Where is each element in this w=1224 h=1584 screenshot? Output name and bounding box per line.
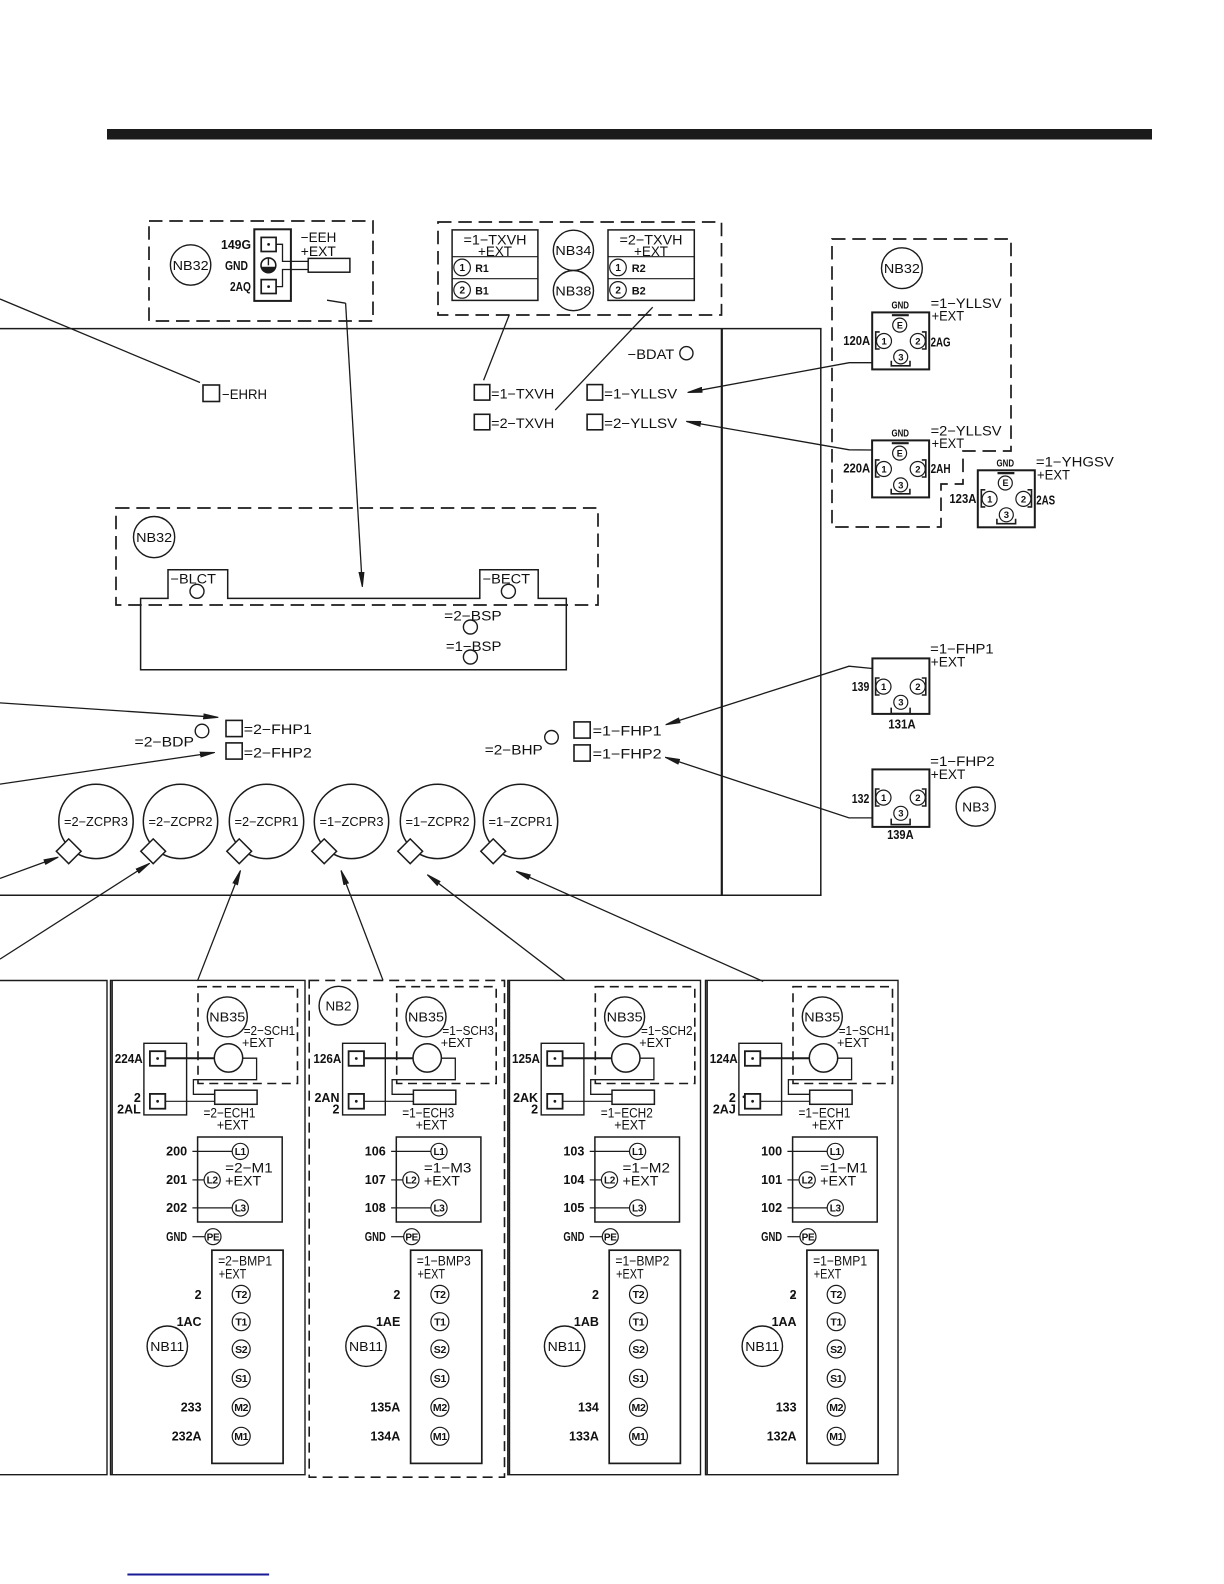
protector terminal S1 [827, 1369, 845, 1387]
arrow from left to =2-FHP2 flag [0, 753, 214, 785]
svg-text:+EXT: +EXT [932, 436, 965, 451]
svg-text:−EEH: −EEH [301, 230, 337, 245]
stray dot after wire label 2 (column 4) [793, 1295, 795, 1297]
svg-text:+EXT: +EXT [424, 1172, 460, 1188]
node NB11 [147, 1326, 187, 1366]
svg-text:T2: T2 [235, 1289, 247, 1301]
motor protector =1-BMP2 box [609, 1250, 680, 1463]
leader 220A connector to =2-YLLSV [687, 422, 872, 451]
motor terminal L2 [204, 1172, 220, 1188]
svg-text:2AQ: 2AQ [230, 280, 251, 294]
motor terminal L1 [232, 1143, 248, 1159]
protector terminal S1 [431, 1369, 449, 1387]
svg-text:M1: M1 [829, 1431, 843, 1443]
connector 120A keying brackets [876, 332, 880, 349]
dashed box NB32 (evaporator temp sensors) [116, 508, 598, 605]
wire 149G to heater [276, 244, 308, 261]
node NB11 [742, 1326, 782, 1366]
motor protector =1-BMP3 box [411, 1250, 482, 1463]
protector terminal M1 [232, 1427, 250, 1445]
node NB11 [346, 1326, 386, 1366]
footer blue rule [127, 1574, 269, 1576]
svg-text:GND: GND [891, 300, 909, 312]
svg-text:=1−ZCPR1: =1−ZCPR1 [489, 815, 553, 829]
svg-text:3: 3 [898, 480, 903, 491]
dashed box NB32 (liquid line solenoid valves) with notch [832, 239, 1011, 527]
svg-text:+EXT: +EXT [217, 1118, 249, 1133]
svg-text:+EXT: +EXT [931, 655, 966, 670]
svg-text:E: E [1002, 478, 1008, 488]
connector 123A pin 3 [999, 508, 1013, 522]
motor protector =2-BMP1 box [212, 1250, 283, 1463]
wire terminal to solenoid [760, 1057, 809, 1059]
svg-text:R1: R1 [475, 263, 489, 275]
motor terminal L3 [431, 1200, 447, 1216]
svg-text:+EXT: +EXT [616, 1266, 644, 1281]
svg-text:132: 132 [852, 792, 870, 806]
motor terminal L2 [799, 1172, 815, 1188]
motor terminal L2 [403, 1172, 419, 1188]
wire 105 [590, 1207, 630, 1209]
dashed box NB35 (solenoid =1-SCH3) [397, 987, 497, 1084]
svg-text:B1: B1 [475, 285, 489, 297]
svg-text:=2−YLLSV: =2−YLLSV [604, 416, 677, 431]
svg-text:2AS: 2AS [1036, 494, 1055, 508]
svg-text:+EXT: +EXT [623, 1172, 659, 1188]
svg-text:=1−ZCPR3: =1−ZCPR3 [320, 815, 384, 829]
svg-text:GND: GND [365, 1230, 386, 1244]
svg-text:T1: T1 [434, 1316, 446, 1328]
svg-text:S2: S2 [235, 1344, 248, 1356]
svg-text:=2−BDP: =2−BDP [135, 735, 195, 750]
svg-text:2: 2 [615, 286, 621, 297]
svg-text:101: 101 [761, 1173, 782, 1187]
leader table1 to =1-TXVH flag [484, 315, 510, 381]
svg-text:NB2: NB2 [326, 999, 352, 1014]
node NB3 [956, 787, 995, 826]
leader 120A connector to =1-YLLSV [689, 363, 873, 393]
svg-text:=1−ZCPR2: =1−ZCPR2 [406, 815, 470, 829]
svg-text:PE: PE [802, 1232, 815, 1243]
node NB2 [319, 986, 358, 1025]
svg-text:3: 3 [898, 352, 903, 363]
wire terminal to solenoid [364, 1057, 413, 1059]
svg-text:134A: 134A [370, 1430, 400, 1444]
svg-text:GND: GND [225, 259, 248, 273]
svg-text:L3: L3 [830, 1204, 842, 1215]
svg-text:NB35: NB35 [607, 1010, 643, 1025]
svg-text:GND: GND [997, 457, 1015, 469]
protector terminal M2 [431, 1398, 449, 1416]
wire terminal 2 to heater [760, 1100, 809, 1102]
terminal 224A [150, 1051, 165, 1066]
protector terminal S2 [232, 1340, 250, 1358]
protector terminal M1 [431, 1427, 449, 1445]
protector terminal M2 [827, 1398, 845, 1416]
arrow from column 4 to =1-ZCPR1 diamond [517, 872, 763, 982]
terminal block [739, 1043, 782, 1115]
svg-text:1: 1 [459, 263, 465, 274]
column 1 border [111, 980, 306, 1474]
svg-text:=2−ZCPR3: =2−ZCPR3 [64, 815, 128, 829]
svg-text:T2: T2 [830, 1289, 842, 1301]
node NB35 [207, 997, 247, 1037]
arrow from left to =2-FHP1 flag [0, 703, 217, 717]
connector 132 pin 1 [876, 790, 891, 805]
node NB35 [802, 997, 842, 1037]
svg-text:+EXT: +EXT [1037, 468, 1070, 483]
svg-text:−EHRH: −EHRH [222, 387, 267, 402]
svg-text:+EXT: +EXT [932, 309, 965, 324]
svg-text:S1: S1 [632, 1373, 645, 1385]
connector 120A body [872, 312, 929, 369]
wire 202 [192, 1207, 232, 1209]
connector 120A pin E [893, 318, 907, 332]
leader into -EHRH from left [0, 299, 200, 383]
connector 132 pin 3 [894, 806, 908, 820]
terminal 149G [261, 237, 276, 251]
svg-text:E: E [897, 448, 903, 458]
svg-text:+EXT: +EXT [301, 244, 336, 259]
svg-text:T1: T1 [235, 1316, 247, 1328]
svg-text:2: 2 [915, 682, 920, 693]
svg-text:+EXT: +EXT [418, 1266, 446, 1281]
svg-text:2: 2 [531, 1102, 538, 1116]
column 2 border [309, 980, 504, 1477]
svg-text:+EXT: +EXT [416, 1118, 448, 1133]
svg-text:−BLCT: −BLCT [171, 572, 217, 587]
motor =2-M1 box [198, 1137, 283, 1222]
svg-text:R2: R2 [632, 263, 646, 275]
svg-text:108: 108 [365, 1201, 386, 1215]
svg-text:PE: PE [604, 1232, 617, 1243]
terminal block [343, 1043, 386, 1115]
wire 103 [590, 1150, 630, 1152]
node NB35 [406, 997, 446, 1037]
protector terminal T2 [630, 1285, 648, 1303]
svg-text:139A: 139A [887, 828, 914, 842]
svg-text:B2: B2 [632, 285, 646, 297]
terminal 125A [547, 1051, 562, 1066]
svg-text:S2: S2 [632, 1344, 645, 1356]
protector terminal S2 [827, 1340, 845, 1358]
connector 220A pin 2 [910, 462, 925, 477]
solenoid coil circle [413, 1044, 441, 1072]
leader table2 to =2-TXVH flag [555, 307, 653, 410]
svg-text:L1: L1 [235, 1147, 247, 1158]
svg-text:1AE: 1AE [376, 1315, 400, 1329]
wire terminal 2 to heater [563, 1100, 612, 1102]
heater element -EEH body [308, 258, 350, 272]
svg-text:+EXT: +EXT [931, 767, 966, 782]
connector 139 keying brackets [876, 678, 880, 695]
main enclosure inner partition wall [721, 329, 723, 896]
node NB11 [544, 1326, 584, 1366]
wire 102 [787, 1207, 827, 1209]
svg-text:+EXT: +EXT [639, 1035, 671, 1050]
svg-text:L1: L1 [830, 1147, 842, 1158]
svg-text:NB3: NB3 [962, 799, 989, 814]
motor =1-M2 box [595, 1137, 680, 1222]
svg-text:T1: T1 [830, 1316, 842, 1328]
flag =2-FHP1 [226, 720, 242, 736]
terminal block [144, 1043, 187, 1115]
svg-text:NB11: NB11 [548, 1339, 582, 1354]
svg-text:M2: M2 [829, 1402, 843, 1414]
connector 120A pin 1 [877, 334, 892, 349]
junction diamond of =2-ZCPR2 [141, 839, 166, 864]
motor protector =1-BMP1 box [807, 1250, 878, 1463]
arrow to =2-ZCPR2 diamond [0, 864, 149, 959]
svg-text:=1−YLLSV: =1−YLLSV [604, 386, 677, 401]
connector 120A GND bar [892, 314, 909, 316]
terminal 2 [349, 1094, 364, 1109]
flag =2-YLLSV [587, 414, 603, 430]
junction diamond of =2-ZCPR1 [227, 839, 252, 864]
connector 123A pin 1 [982, 491, 997, 506]
svg-text:103: 103 [563, 1145, 584, 1159]
pin 1 R2 [610, 259, 627, 276]
connector 220A keying brackets [876, 460, 880, 477]
svg-text:202: 202 [166, 1201, 187, 1215]
junction diamond of =1-ZCPR1 [481, 839, 506, 864]
protector terminal T2 [232, 1285, 250, 1303]
svg-text:GND: GND [166, 1230, 187, 1244]
dashed box NB35 (solenoid =1-SCH1) [793, 987, 893, 1084]
protector terminal M1 [827, 1427, 845, 1445]
compressor =1-ZCPR3 [314, 784, 388, 858]
svg-text:+EXT: +EXT [812, 1118, 844, 1133]
crankcase heater =1-ECH1 body [810, 1090, 852, 1104]
svg-text:E: E [897, 320, 903, 330]
wire 104 [590, 1179, 602, 1181]
node NB32 (middle) [134, 517, 175, 558]
wire terminal 2 to heater [165, 1100, 214, 1102]
dashed box NB35 (solenoid =1-SCH2) [595, 987, 695, 1084]
svg-text:M2: M2 [632, 1402, 646, 1414]
svg-text:T2: T2 [633, 1289, 645, 1301]
svg-text:2: 2 [393, 1288, 400, 1302]
svg-text:+EXT: +EXT [242, 1035, 274, 1050]
svg-text:+EXT: +EXT [614, 1118, 646, 1133]
node NB32 (right) [882, 248, 923, 289]
svg-text:107: 107 [365, 1173, 386, 1187]
svg-text:=1−TXVH: =1−TXVH [491, 386, 554, 401]
svg-text:3: 3 [1004, 510, 1009, 521]
wire 200 [192, 1150, 232, 1152]
svg-text:L1: L1 [632, 1147, 644, 1158]
svg-text:1AB: 1AB [574, 1315, 599, 1329]
connector 123A pin E [998, 476, 1012, 490]
svg-text:+EXT: +EXT [225, 1172, 261, 1188]
motor terminal L1 [431, 1143, 447, 1159]
compressor =1-ZCPR1 [483, 784, 557, 858]
svg-text:126A: 126A [313, 1052, 341, 1066]
connector 220A pin 3 [894, 478, 908, 492]
connector 139 pin 2 [910, 679, 925, 694]
svg-text:=2−FHP2: =2−FHP2 [244, 746, 312, 761]
svg-text:139: 139 [852, 680, 870, 694]
svg-text:+EXT: +EXT [219, 1266, 247, 1281]
svg-text:GND: GND [563, 1230, 584, 1244]
protector terminal S2 [630, 1340, 648, 1358]
svg-text:S2: S2 [830, 1344, 843, 1356]
flag =1-YLLSV [587, 385, 603, 401]
terminal 124A [745, 1051, 760, 1066]
protector terminal M2 [630, 1398, 648, 1416]
connector 139 pin 1 [876, 679, 891, 694]
motor terminal L2 [601, 1172, 617, 1188]
terminal 2 [547, 1094, 562, 1109]
wire 2AQ to heater [276, 270, 308, 287]
svg-text:=2−BHP: =2−BHP [485, 743, 543, 758]
svg-text:GND: GND [891, 428, 909, 440]
svg-text:1: 1 [615, 263, 621, 274]
wire solenoid loop to heater [591, 1058, 654, 1094]
svg-text:=1−FHP2: =1−FHP2 [593, 747, 662, 762]
node NB32 (top-left) [170, 245, 210, 285]
protector terminal T2 [827, 1285, 845, 1303]
connector 220A GND bar [892, 442, 909, 444]
svg-text:=2−ZCPR1: =2−ZCPR1 [235, 815, 299, 829]
svg-text:L3: L3 [235, 1204, 247, 1215]
svg-text:2: 2 [333, 1102, 340, 1116]
motor terminal L1 [827, 1143, 843, 1159]
svg-text:106: 106 [365, 1145, 386, 1159]
svg-text:133A: 133A [569, 1430, 599, 1444]
svg-text:S1: S1 [434, 1373, 447, 1385]
flag =1-TXVH [474, 385, 490, 401]
pin 2 B1 [454, 282, 471, 299]
wire terminal to solenoid [563, 1057, 612, 1059]
protector terminal T1 [630, 1313, 648, 1331]
svg-text:PE: PE [405, 1232, 418, 1243]
wire 108 [391, 1207, 431, 1209]
svg-text:NB35: NB35 [209, 1010, 245, 1025]
terminal block [541, 1043, 584, 1115]
wire 107 [391, 1179, 403, 1181]
table =2-TXVH [608, 230, 694, 301]
svg-text:+EXT: +EXT [634, 243, 668, 259]
connector 123A pin 2 [1016, 491, 1031, 506]
svg-text:131A: 131A [888, 718, 916, 732]
motor terminal L3 [232, 1200, 248, 1216]
svg-text:149G: 149G [221, 238, 251, 252]
wire 201 [192, 1179, 204, 1181]
svg-text:NB34: NB34 [555, 243, 591, 258]
svg-text:M2: M2 [433, 1402, 447, 1414]
leader from EEH box to evaporator body [327, 300, 346, 303]
main enclosure bottom wall [0, 894, 822, 896]
svg-text:133: 133 [776, 1401, 797, 1415]
compressor =2-ZCPR1 [229, 784, 303, 858]
flag =1-FHP2 [574, 745, 590, 761]
svg-text:NB38: NB38 [555, 283, 591, 298]
top heavy rule [107, 129, 1152, 140]
dashed enclosure box NB32 (EEH heater) [149, 221, 373, 321]
pin 1 R1 [454, 259, 471, 276]
svg-text:L1: L1 [433, 1147, 445, 1158]
motor =1-M3 box [396, 1137, 481, 1222]
terminal 2 [150, 1094, 165, 1109]
protector terminal T1 [827, 1313, 845, 1331]
svg-text:2: 2 [195, 1288, 202, 1302]
arrow from column 1 to =2-ZCPR1 diamond [198, 871, 241, 981]
svg-text:NB11: NB11 [349, 1339, 383, 1354]
table =1-TXVH [452, 230, 538, 301]
svg-text:S1: S1 [830, 1373, 843, 1385]
solenoid coil circle [214, 1044, 242, 1072]
svg-text:M2: M2 [234, 1402, 248, 1414]
connector 220A pin E [893, 446, 907, 460]
connector 139 body [872, 658, 929, 714]
wire solenoid loop to heater [392, 1058, 455, 1094]
svg-text:102: 102 [761, 1201, 782, 1215]
svg-text:224A: 224A [115, 1052, 143, 1066]
svg-text:3: 3 [898, 698, 903, 709]
arrow to =2-ZCPR3 diamond [0, 857, 58, 878]
crankcase heater =1-ECH2 body [612, 1090, 654, 1104]
terminal 2 [745, 1094, 760, 1109]
svg-text:105: 105 [563, 1201, 584, 1215]
svg-text:T2: T2 [434, 1289, 446, 1301]
connector 220A pin 1 [876, 462, 891, 477]
svg-text:+EXT: +EXT [441, 1035, 473, 1050]
terminal 126A [349, 1051, 364, 1066]
svg-text:M1: M1 [234, 1431, 248, 1443]
dashed box NB35 (solenoid =2-SCH1) [198, 987, 298, 1084]
wire 100 [787, 1150, 827, 1152]
evaporator vessel outline [141, 570, 567, 670]
svg-text:232A: 232A [172, 1430, 202, 1444]
protector terminal T1 [431, 1313, 449, 1331]
connector 120A pin 3 [894, 350, 908, 364]
svg-text:124A: 124A [710, 1052, 738, 1066]
compressor =1-ZCPR2 [400, 784, 474, 858]
svg-text:104: 104 [563, 1173, 584, 1187]
svg-text:L2: L2 [604, 1176, 616, 1187]
svg-text:L3: L3 [632, 1204, 644, 1215]
connector 123A GND bar [998, 472, 1015, 474]
svg-text:−BDAT: −BDAT [628, 347, 675, 362]
connector 123A body [978, 470, 1035, 527]
svg-text:2AH: 2AH [931, 462, 951, 476]
partial compressor bay (far left, empty) [0, 981, 107, 1475]
svg-text:220A: 220A [843, 462, 870, 476]
protector terminal T2 [431, 1285, 449, 1303]
solenoid coil circle [809, 1044, 837, 1072]
connector 123A keying brackets [981, 490, 985, 507]
connector 139 pin 3 [894, 695, 908, 709]
protector terminal S2 [431, 1340, 449, 1358]
solenoid coil circle [612, 1044, 640, 1072]
svg-text:2: 2 [459, 286, 465, 297]
svg-text:2: 2 [915, 464, 920, 475]
svg-text:201: 201 [166, 1173, 187, 1187]
node NB35 [605, 997, 645, 1037]
terminal 2AQ [261, 280, 276, 294]
connector 132 body [872, 769, 929, 827]
flag =2-FHP2 [226, 743, 242, 759]
junction diamond of =1-ZCPR2 [398, 839, 423, 864]
connector 220A body [872, 440, 929, 497]
flag =2-TXVH [474, 414, 490, 430]
compressor =2-ZCPR3 [59, 784, 133, 858]
svg-text:NB32: NB32 [884, 261, 920, 276]
svg-text:2AG: 2AG [931, 336, 951, 350]
protector terminal S1 [232, 1369, 250, 1387]
arrow from column 3 to =1-ZCPR2 diamond [428, 875, 565, 980]
